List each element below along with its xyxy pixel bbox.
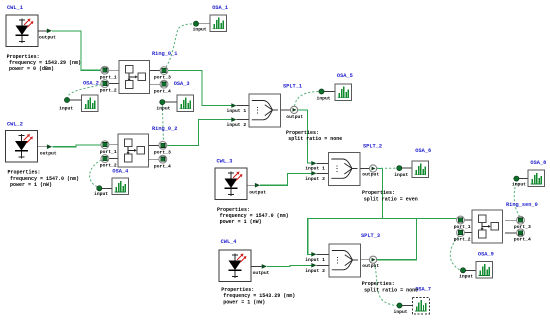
svg-text:port_3: port_3 (154, 75, 171, 81)
svg-text:output: output (39, 34, 56, 40)
svg-text:port_3: port_3 (154, 149, 171, 155)
svg-text:input: input (317, 95, 331, 101)
svg-text:input 1: input 1 (305, 166, 325, 172)
svg-text:port_2: port_2 (100, 88, 117, 94)
svg-text:Properties:: Properties: (8, 170, 41, 176)
svg-text:Properties:: Properties: (221, 287, 254, 293)
svg-text:Ring_0_2: Ring_0_2 (152, 126, 177, 132)
svg-text:port_2: port_2 (454, 237, 471, 243)
svg-text:CWL_1: CWL_1 (7, 5, 23, 11)
svg-text:input: input (459, 273, 473, 279)
svg-text:power = 1 (nW): power = 1 (nW) (220, 219, 262, 225)
svg-text:port_2: port_2 (100, 163, 117, 169)
svg-text:Properties:: Properties: (362, 281, 395, 287)
svg-text:port_4: port_4 (514, 237, 531, 243)
svg-text:output: output (286, 114, 303, 120)
svg-text:split ratio = none: split ratio = none (288, 136, 342, 142)
svg-text:power = 1 (nW): power = 1 (nW) (10, 182, 52, 188)
svg-text:input 2: input 2 (227, 122, 247, 128)
svg-text:split ratio = even: split ratio = even (364, 196, 418, 202)
svg-text:input 2: input 2 (305, 176, 325, 182)
svg-text:port_1: port_1 (100, 149, 117, 155)
svg-text:SPLT_2: SPLT_2 (363, 144, 382, 150)
svg-text:input: input (59, 106, 73, 112)
svg-text:input 1: input 1 (227, 108, 247, 114)
svg-text:power = 1 (nW): power = 1 (nW) (223, 299, 265, 305)
svg-text:output: output (40, 151, 57, 157)
svg-text:input: input (394, 172, 408, 178)
svg-text:Ring_sen_0: Ring_sen_0 (506, 202, 538, 208)
svg-text:CWL_2: CWL_2 (7, 122, 23, 128)
svg-text:input: input (512, 182, 526, 188)
svg-text:input: input (193, 27, 207, 33)
svg-text:port_4: port_4 (154, 163, 171, 169)
svg-text:Ring_0_1: Ring_0_1 (152, 51, 177, 57)
svg-text:CWL_4: CWL_4 (221, 239, 238, 245)
svg-text:SPLT_1: SPLT_1 (283, 84, 302, 90)
svg-text:port_1: port_1 (100, 74, 117, 80)
svg-text:frequency = 1543.29 (nm): frequency = 1543.29 (nm) (223, 293, 295, 299)
svg-text:port_3: port_3 (514, 224, 531, 230)
svg-text:OSA_2: OSA_2 (83, 81, 99, 87)
svg-text:CWL_3: CWL_3 (217, 158, 233, 164)
svg-text:Properties:: Properties: (362, 190, 395, 196)
svg-text:output: output (249, 189, 266, 195)
svg-text:input 2: input 2 (305, 268, 325, 274)
svg-text:port_4: port_4 (154, 88, 171, 94)
svg-text:input 1: input 1 (305, 257, 325, 263)
svg-text:OSA_5: OSA_5 (337, 73, 353, 79)
svg-text:OSA_3: OSA_3 (174, 81, 190, 87)
svg-text:OSA_9: OSA_9 (478, 251, 494, 257)
svg-text:split ratio = none: split ratio = none (364, 288, 418, 294)
svg-text:input: input (394, 309, 408, 315)
svg-text:output: output (362, 263, 379, 269)
svg-text:SPLT_3: SPLT_3 (361, 233, 380, 239)
svg-text:frequency = 1547.0 (nm): frequency = 1547.0 (nm) (10, 176, 79, 182)
svg-text:input: input (94, 191, 108, 197)
svg-text:port_1: port_1 (454, 224, 471, 230)
svg-text:OSA_1: OSA_1 (212, 5, 228, 11)
svg-text:OSA_8: OSA_8 (530, 160, 546, 166)
svg-text:OSA_6: OSA_6 (415, 148, 431, 154)
svg-text:power = 0 (dBm): power = 0 (dBm) (9, 66, 54, 72)
svg-text:input: input (156, 106, 170, 112)
svg-text:OSA_4: OSA_4 (112, 169, 129, 175)
svg-text:output: output (253, 270, 270, 276)
svg-text:output: output (362, 172, 379, 178)
